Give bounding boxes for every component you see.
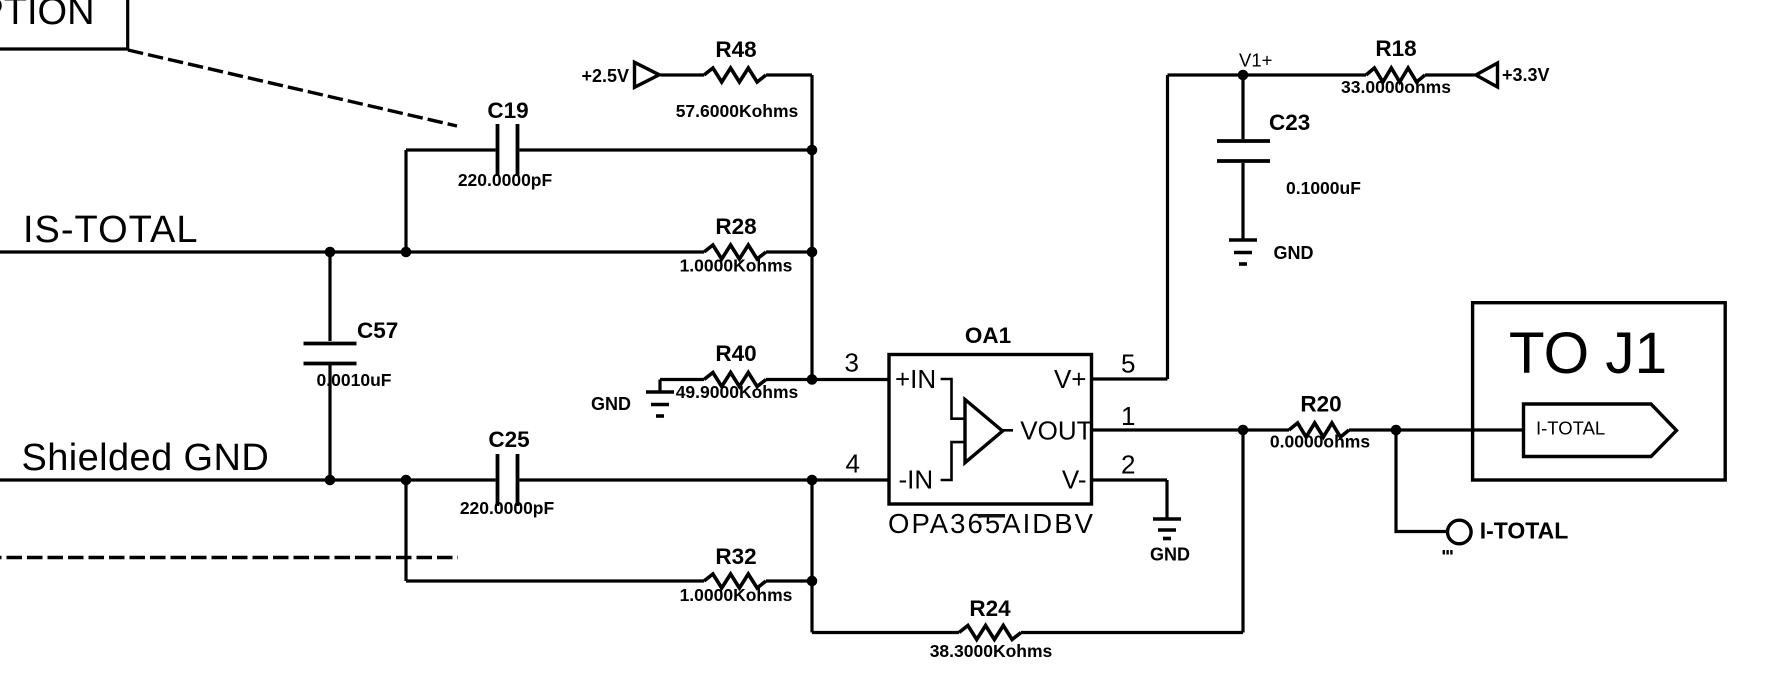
junction at (1243,75) (1238, 70, 1249, 81)
wire right rail upper (810, 75, 813, 380)
wire vertical Shielded GND to R32 (404, 480, 407, 581)
wire pin3 to op-amp (812, 378, 890, 381)
svg-text:57.6000Kohms: 57.6000Kohms (676, 101, 799, 121)
junction at (812,252) (807, 247, 818, 258)
ground symbol at R40 (646, 380, 674, 417)
op-amp triangle symbol (965, 400, 1003, 463)
wire VOUT to R20 (1092, 428, 1290, 431)
resistor R28 (704, 245, 766, 259)
svg-text:GND: GND (1150, 545, 1190, 565)
svg-text:V+: V+ (1054, 364, 1087, 394)
port arrow I-TOTAL (1524, 404, 1677, 457)
junction at (812,150) (807, 145, 818, 156)
svg-text:R20: R20 (1300, 392, 1341, 417)
svg-text:GND: GND (591, 394, 631, 414)
svg-text:C23: C23 (1269, 110, 1310, 135)
svg-text:1: 1 (1121, 401, 1135, 431)
svg-text:R28: R28 (715, 214, 756, 239)
junction at (406,480) (401, 475, 412, 486)
svg-text:V1+: V1+ (1239, 50, 1272, 71)
junction at (330,252) (325, 247, 336, 258)
svg-text:0.1000uF: 0.1000uF (1286, 178, 1361, 198)
annotation box corner (cropped) (0, 0, 128, 49)
svg-text:2: 2 (1121, 450, 1135, 480)
junction at (406,252) (401, 247, 412, 258)
wire R40 branch (660, 378, 704, 381)
svg-text:5: 5 (1121, 349, 1135, 379)
svg-text:R32: R32 (715, 544, 756, 569)
wire IS-TOTAL horizontal (0, 250, 704, 253)
op-amp U1 body (OA1) (889, 355, 1092, 505)
wire pin2 gnd stub (1165, 480, 1168, 519)
junction at (1396,430) (1391, 425, 1402, 436)
capacitor C19 (498, 124, 518, 176)
junction at (812,480) (807, 475, 818, 486)
svg-text:VOUT: VOUT (1020, 416, 1092, 446)
junction at (812,379.5) (807, 374, 818, 385)
junction at (1243,430) (1238, 425, 1249, 436)
wire V+ vertical rail (1166, 75, 1169, 379)
resistor R40 (704, 373, 766, 387)
svg-text:TO J1: TO J1 (1509, 321, 1667, 386)
wire triangle output stub (1002, 429, 1013, 432)
wire C19 branch horizontal (406, 148, 496, 151)
svg-text:IS-TOTAL: IS-TOTAL (23, 209, 199, 251)
svg-text:V-: V- (1062, 465, 1087, 495)
svg-text:220.0000pF: 220.0000pF (458, 170, 553, 190)
wire R48 branch (661, 73, 705, 76)
resistor R48 (704, 68, 766, 82)
junction at (330,480) (325, 475, 336, 486)
power symbol +2.5V (635, 62, 660, 87)
svg-text:0.0000ohms: 0.0000ohms (1270, 432, 1370, 452)
svg-text:-IN: -IN (899, 465, 934, 495)
svg-text:C19: C19 (487, 98, 528, 123)
svg-text:C57: C57 (357, 318, 398, 343)
wire feedback vertical (1241, 430, 1244, 633)
box TO J1 (1473, 303, 1726, 480)
resistor R24 (959, 626, 1021, 640)
svg-text:220.0000pF: 220.0000pF (460, 498, 555, 518)
wire R24 feedback bottom (812, 631, 959, 634)
svg-text:3: 3 (845, 348, 859, 378)
junction at (812,581) (807, 576, 818, 587)
resistor R18 (1366, 68, 1425, 82)
wire pin2 V- (1092, 478, 1168, 481)
capacitor C23 (1217, 75, 1270, 240)
svg-text:+2.5V: +2.5V (581, 66, 629, 86)
wire -IN internal jog (941, 442, 965, 480)
capacitor C25 (498, 454, 518, 506)
wire pin5 V+ (1092, 377, 1168, 380)
svg-text:GND: GND (1274, 243, 1314, 263)
dashed leader line from annotation box (128, 50, 457, 126)
wire right rail lower (810, 480, 813, 633)
svg-text:OA1: OA1 (965, 323, 1011, 348)
resistor R20 (1289, 423, 1349, 437)
svg-text:1.0000Kohms: 1.0000Kohms (680, 585, 793, 605)
wire Shielded GND horizontal (0, 478, 496, 481)
svg-text:49.9000Kohms: 49.9000Kohms (676, 382, 799, 402)
svg-text:R40: R40 (715, 341, 756, 366)
wire R20 to port (1349, 428, 1522, 431)
svg-text:1.0000Kohms: 1.0000Kohms (680, 256, 793, 276)
wire testpoint branch (1396, 430, 1448, 532)
wire V1+ horizontal (1168, 73, 1367, 76)
tiny annotation marks under testpoint (1443, 550, 1453, 555)
svg-text:+3.3V: +3.3V (1502, 65, 1550, 85)
resistor R32 (704, 574, 766, 588)
svg-text:C25: C25 (488, 427, 529, 452)
ground symbol at op-amp V- pin 2 (1153, 519, 1181, 539)
svg-text:+IN: +IN (895, 364, 936, 394)
wire R32 horizontal (406, 579, 704, 582)
testpoint circle I-TOTAL (1448, 520, 1472, 544)
svg-text:I-TOTAL: I-TOTAL (1536, 418, 1605, 439)
svg-text:I-TOTAL: I-TOTAL (1480, 517, 1569, 543)
capacitor C57 (304, 252, 357, 480)
svg-text:R24: R24 (969, 596, 1011, 621)
wire vertical C19 to IS-TOTAL (404, 150, 407, 252)
dashed leader line bottom (0, 556, 458, 559)
svg-text:Shielded GND: Shielded GND (22, 437, 270, 479)
svg-text:R48: R48 (715, 37, 756, 62)
svg-text:33.0000ohms: 33.0000ohms (1341, 77, 1451, 97)
svg-text:4: 4 (846, 449, 860, 479)
ground symbol at C23 (1229, 240, 1257, 264)
svg-text:OPA365AIDBV: OPA365AIDBV (888, 508, 1095, 539)
power symbol +3.3V (1476, 63, 1498, 87)
svg-text:38.3000Kohms: 38.3000Kohms (930, 641, 1053, 661)
tiny annotation mark under op-amp (978, 514, 1005, 518)
svg-text:PTION: PTION (0, 0, 95, 33)
svg-text:0.0010uF: 0.0010uF (317, 370, 392, 390)
wire +IN internal jog (941, 379, 965, 419)
svg-text:R18: R18 (1375, 36, 1416, 61)
